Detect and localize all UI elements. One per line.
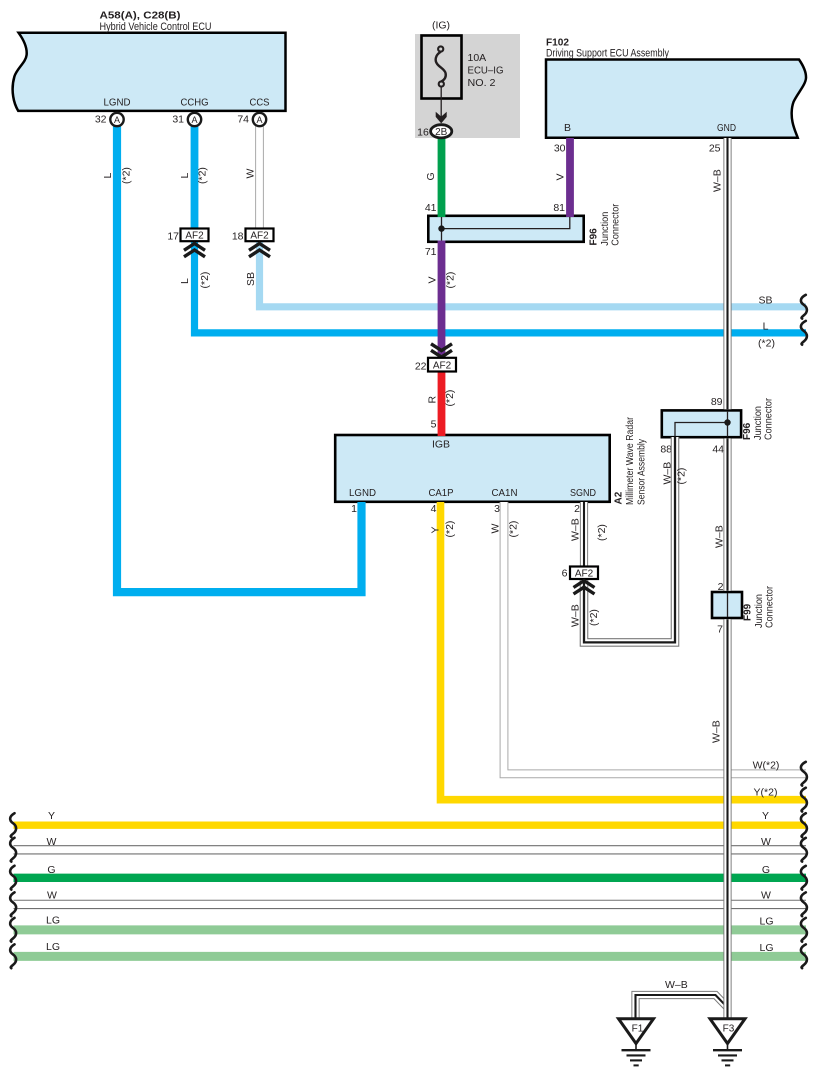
svg-text:ECU–IG: ECU–IG (468, 65, 504, 77)
ground F3 (710, 1019, 745, 1066)
svg-text:2: 2 (718, 581, 724, 593)
svg-text:AF2: AF2 (185, 231, 204, 242)
svg-text:(*2): (*2) (444, 521, 456, 538)
svg-text:W: W (47, 890, 57, 902)
svg-text:1: 1 (351, 503, 357, 515)
svg-text:Sensor Assembly: Sensor Assembly (637, 439, 648, 505)
svg-text:(*2): (*2) (445, 272, 457, 289)
svg-text:SB: SB (758, 295, 772, 307)
svg-text:SB: SB (245, 272, 257, 286)
svg-text:W(*2): W(*2) (753, 760, 780, 772)
svg-text:CA1N: CA1N (492, 487, 518, 499)
svg-text:Connector: Connector (611, 203, 622, 246)
wire G from fuse 2B to F96 pin 41 (425, 136, 442, 217)
pin circle A 74 (237, 113, 266, 126)
wire W-B main ground line from F102 GND pin 25 (711, 138, 728, 1019)
svg-text:(*2): (*2) (588, 609, 600, 626)
ground F1 (619, 1019, 654, 1066)
svg-text:W–B: W–B (714, 525, 726, 548)
junction connector F96 upper box (425, 202, 622, 258)
svg-text:A: A (256, 115, 262, 125)
svg-text:LG: LG (759, 942, 773, 954)
svg-text:(*2): (*2) (444, 390, 456, 407)
svg-text:A2: A2 (614, 491, 625, 504)
svg-text:LG: LG (759, 916, 773, 928)
svg-text:Y: Y (430, 526, 442, 533)
svg-text:Connector: Connector (764, 397, 775, 440)
svg-text:W: W (761, 836, 771, 848)
svg-text:B: B (564, 122, 571, 134)
svg-text:Driving Support ECU Assembly: Driving Support ECU Assembly (546, 48, 669, 60)
svg-text:Junction: Junction (754, 594, 765, 628)
svg-text:18: 18 (232, 231, 244, 243)
ECU F102 Driving Support ECU Assembly box (546, 37, 806, 155)
connector AF2 18 (232, 229, 274, 243)
svg-text:W–B: W–B (712, 169, 724, 192)
svg-text:(IG): (IG) (432, 20, 450, 32)
wire L from AF2 17 to page right (179, 241, 806, 350)
wire V from F96 pin 71 to AF2 22 (427, 241, 457, 359)
svg-text:F96: F96 (742, 422, 753, 440)
fuse block background (415, 34, 520, 138)
svg-text:74: 74 (237, 114, 249, 126)
svg-text:(*2): (*2) (676, 468, 688, 485)
svg-text:3: 3 (494, 503, 500, 515)
svg-text:71: 71 (425, 246, 437, 258)
svg-text:W–B: W–B (665, 979, 688, 991)
bus wire LG horizontal 1 (14, 915, 807, 930)
svg-text:10A: 10A (468, 52, 487, 64)
junction F96 upper inner bus and node (438, 217, 570, 241)
svg-text:LG: LG (46, 941, 60, 953)
junction connector F96 lower-right box (660, 396, 774, 456)
svg-text:Connector: Connector (765, 585, 776, 628)
svg-text:CCHG: CCHG (181, 97, 209, 109)
svg-text:6: 6 (562, 568, 568, 580)
wire W from A58 pin 74 CCS to AF2 18 (245, 122, 260, 229)
svg-text:L: L (763, 321, 769, 333)
break squiggles right edge (801, 295, 807, 968)
svg-text:F3: F3 (723, 1024, 735, 1035)
svg-text:GND: GND (717, 122, 736, 134)
svg-text:(*2): (*2) (121, 167, 133, 184)
svg-text:G: G (762, 864, 770, 876)
svg-text:89: 89 (711, 396, 723, 408)
svg-text:A: A (114, 115, 120, 125)
fuse 10A ECU-IG NO.2 (422, 20, 504, 124)
svg-text:W: W (245, 169, 257, 179)
bus wire Y horizontal (14, 810, 807, 825)
junction connector F99 box (712, 581, 776, 636)
ECU A58 Hybrid Vehicle Control ECU box (13, 10, 286, 111)
wire R from AF2 22 to A2 pin 5 IGB (427, 371, 457, 436)
svg-text:AF2: AF2 (575, 569, 594, 580)
wire W-B from A2 SGND pin 2 to AF2 6 (570, 502, 609, 567)
svg-text:(*2): (*2) (508, 521, 520, 538)
svg-text:W: W (761, 890, 771, 902)
svg-text:W: W (47, 836, 57, 848)
svg-text:(*2): (*2) (596, 524, 608, 541)
svg-text:AF2: AF2 (250, 231, 269, 242)
svg-text:Millimeter Wave Radar: Millimeter Wave Radar (625, 416, 636, 505)
connector AF2 17 (167, 229, 208, 243)
bus wire LG horizontal 2 (14, 941, 807, 956)
svg-text:2: 2 (574, 503, 580, 515)
junction F96 lower inner bus and node (675, 411, 731, 437)
wire W-B branch to ground F1 (636, 979, 728, 1019)
svg-text:7: 7 (717, 624, 723, 636)
svg-text:F1: F1 (632, 1024, 644, 1035)
chevron up below AF2 6 (574, 581, 595, 594)
wire L loop from A58 pin 32 LGND to A2 pin 1 LGND (102, 122, 362, 592)
svg-text:Junction: Junction (753, 406, 764, 440)
break squiggles left edge (10, 813, 16, 968)
svg-text:41: 41 (425, 202, 437, 214)
chevron down above AF2 22 (431, 344, 452, 357)
svg-text:2B: 2B (435, 127, 448, 138)
svg-text:V: V (555, 173, 567, 180)
svg-text:81: 81 (553, 202, 565, 214)
svg-text:L: L (102, 173, 114, 179)
svg-text:SGND: SGND (570, 487, 596, 499)
wire SB from AF2 18 to page right (245, 241, 806, 307)
chevron up below AF2 18 (249, 244, 270, 257)
svg-text:G: G (425, 172, 437, 180)
svg-text:W–B: W–B (662, 462, 674, 485)
svg-text:(*2): (*2) (758, 338, 775, 350)
wire Y from A2 CA1P pin 4 to page right (430, 502, 807, 800)
svg-text:F99: F99 (743, 603, 754, 621)
svg-text:W: W (490, 524, 502, 534)
svg-text:4: 4 (431, 503, 437, 515)
svg-text:Hybrid Vehicle Control ECU: Hybrid Vehicle Control ECU (100, 21, 212, 33)
svg-text:LG: LG (46, 915, 60, 927)
svg-text:31: 31 (172, 114, 184, 126)
wire W-B loop from AF2 6 to F96 pin 88 (569, 437, 687, 642)
svg-text:W–B: W–B (570, 518, 582, 541)
svg-text:NO. 2: NO. 2 (468, 77, 496, 89)
svg-text:LGND: LGND (349, 487, 376, 499)
svg-text:L: L (179, 173, 191, 179)
svg-text:V: V (427, 276, 439, 283)
bus wire G horizontal (14, 864, 807, 878)
wire V from F102 pin 30 B to F96 pin 81 (555, 138, 571, 217)
svg-text:30: 30 (554, 143, 566, 155)
svg-text:22: 22 (415, 361, 427, 373)
svg-text:W–B: W–B (711, 720, 723, 743)
svg-text:17: 17 (167, 231, 179, 243)
pin circle A 31 (172, 113, 201, 126)
connector AF2 6 (562, 567, 598, 580)
svg-text:CA1P: CA1P (429, 487, 454, 499)
svg-text:W–B: W–B (569, 604, 581, 627)
svg-text:25: 25 (709, 143, 721, 155)
svg-text:F96: F96 (589, 228, 600, 246)
bus wire W horizontal 2 (14, 890, 807, 905)
svg-text:16: 16 (417, 127, 429, 139)
svg-text:G: G (47, 864, 55, 876)
bus wire W horizontal 1 (14, 836, 807, 850)
svg-text:(*2): (*2) (199, 272, 211, 289)
svg-text:88: 88 (660, 444, 672, 456)
chevron up below AF2 17 (184, 244, 205, 257)
wire W from A2 CA1N pin 3 to page right (490, 502, 807, 774)
svg-text:IGB: IGB (432, 439, 450, 451)
svg-text:CCS: CCS (250, 97, 270, 109)
svg-text:Y: Y (48, 810, 55, 822)
connector AF2 22 (415, 358, 456, 373)
svg-text:R: R (427, 396, 439, 404)
connector oval 2B pin 16 (417, 125, 452, 139)
pin circle A 32 (95, 113, 124, 126)
svg-text:LGND: LGND (104, 97, 131, 109)
svg-text:A: A (191, 115, 197, 125)
svg-text:L: L (179, 278, 191, 284)
svg-text:(*2): (*2) (197, 167, 209, 184)
wire L from A58 pin 31 CCHG to AF2 17 (179, 122, 209, 229)
svg-text:AF2: AF2 (433, 360, 452, 371)
svg-text:32: 32 (95, 114, 107, 126)
svg-text:Y: Y (762, 810, 769, 822)
svg-text:5: 5 (431, 419, 437, 431)
svg-text:A58(A), C28(B): A58(A), C28(B) (100, 10, 181, 22)
radar sensor A2 box (335, 416, 647, 515)
junction F99 inner line (727, 593, 729, 617)
svg-text:44: 44 (712, 444, 724, 456)
svg-text:Junction: Junction (600, 212, 611, 246)
svg-text:Y(*2): Y(*2) (754, 786, 778, 798)
